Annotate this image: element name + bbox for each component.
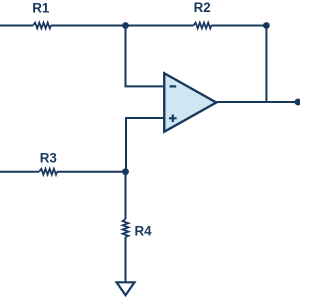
wire: feedback vertical to output [265, 26, 267, 103]
resistor R3 [39, 169, 57, 175]
wire: R2 to feedback corner [211, 25, 266, 27]
output node dot (clipped at right edge) [295, 99, 302, 106]
wire: R4 to ground [125, 237, 127, 282]
resistor R4 [123, 219, 129, 237]
wire: node C down to R4 [125, 172, 127, 219]
wire: noninverting input left and down to node C [126, 118, 165, 172]
ground [117, 282, 135, 295]
wire: left input to R3 [0, 171, 39, 173]
wire: R1 to R2 through node A [51, 25, 194, 27]
node B junction dot (feedback corner) [263, 22, 270, 29]
svg-text:R1: R1 [32, 1, 50, 16]
svg-text:R4: R4 [135, 223, 153, 238]
wire: op-amp output to right edge [216, 101, 300, 103]
wire: left input to R1 [0, 25, 33, 27]
svg-text:R3: R3 [40, 150, 57, 165]
op-amp minus sign [170, 85, 177, 87]
svg-text:R2: R2 [194, 0, 211, 15]
node C junction dot [122, 168, 129, 175]
wire: R3 to node C [57, 171, 125, 173]
resistor R2 [194, 23, 212, 29]
wire: node A down to inverting input [126, 26, 165, 87]
op-amp U1 [164, 73, 216, 132]
op-amp plus sign [169, 115, 177, 123]
resistor R1 [33, 23, 51, 29]
node A junction dot [122, 22, 129, 29]
